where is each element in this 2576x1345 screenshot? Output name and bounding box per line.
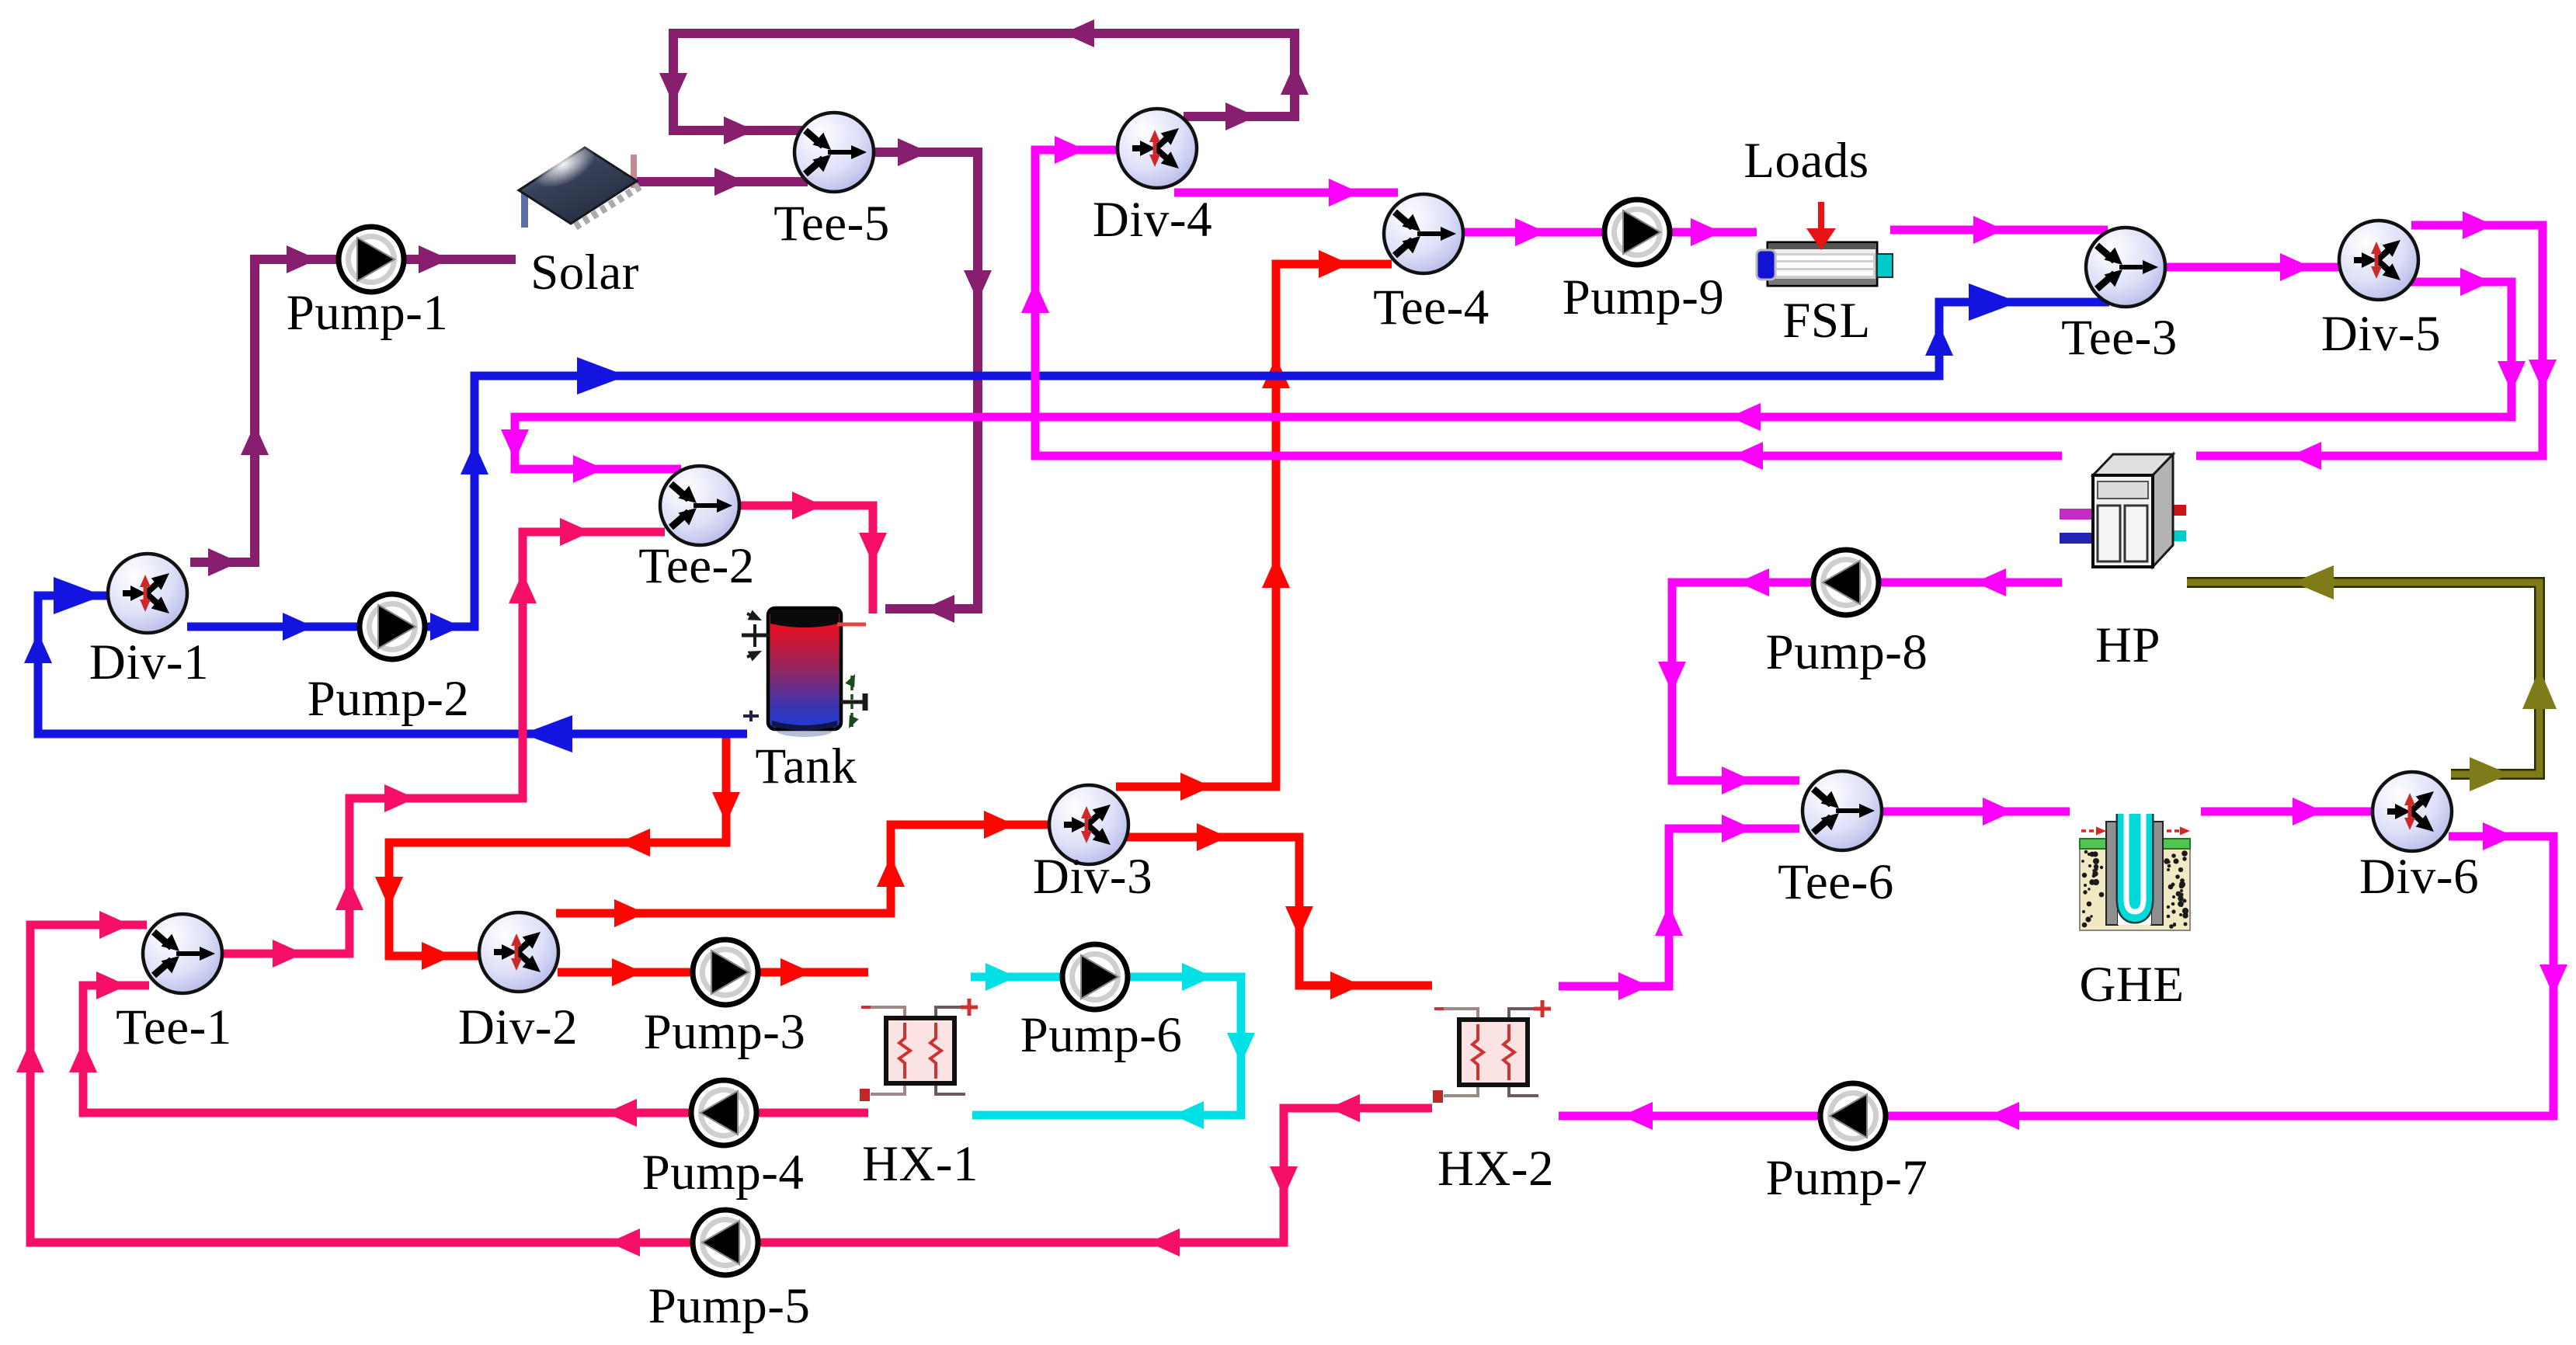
svg-text:Pump-1: Pump-1 — [287, 285, 449, 341]
icon Solar collector — [519, 132, 640, 228]
diverter Div-5 — [2339, 221, 2418, 300]
icon Loads arrow — [1806, 202, 1836, 250]
svg-text:Tee-4: Tee-4 — [1373, 280, 1490, 335]
pump Pump-8 — [1813, 550, 1879, 615]
pump Pump-9 — [1604, 200, 1670, 265]
svg-text:Tee-2: Tee-2 — [638, 538, 755, 594]
wire crimson Tee-1 to Tee-2 — [223, 518, 665, 968]
wire magenta Div-6 Pump-7 to HX-2 — [1559, 822, 2567, 1130]
wire red Div-2 to Pump-3 to HX-1 — [558, 958, 868, 986]
wire magenta Tee-3 to Div-5 — [2164, 253, 2341, 281]
icon HP heat pump — [2060, 454, 2186, 567]
pump Pump-6 — [1062, 944, 1128, 1010]
svg-text:HX-1: HX-1 — [862, 1136, 979, 1192]
icon Tank left sensor marks — [742, 610, 769, 722]
svg-text:Div-4: Div-4 — [1093, 192, 1212, 248]
wire magenta Tee-6 to GHE — [1882, 798, 2070, 825]
wire olive Div-6 to HP — [2187, 565, 2557, 791]
wire magenta Div-5 lower output bus to Tee-2 — [501, 268, 2526, 483]
wire crimson HX-1 Pump-4 to Tee-1 — [69, 971, 868, 1127]
svg-text:Pump-6: Pump-6 — [1020, 1007, 1183, 1063]
svg-text:Pump-9: Pump-9 — [1563, 269, 1725, 325]
svg-text:Pump-8: Pump-8 — [1766, 624, 1928, 680]
pump Pump-2 — [360, 594, 425, 659]
icon GHE borehole — [2080, 812, 2190, 930]
svg-text:Tee-5: Tee-5 — [773, 196, 890, 252]
svg-text:Div-1: Div-1 — [89, 634, 209, 690]
wire purple Solar to Tee-5 — [621, 168, 808, 196]
tee Tee-1 — [143, 914, 222, 993]
tee Tee-4 — [1384, 194, 1463, 273]
wire magenta bus to Div-4 riser — [1021, 136, 2062, 470]
wire blue Tank to Div-1 — [24, 577, 747, 752]
wire crimson HX-2 Pump-5 to Tee-1 — [16, 911, 1432, 1256]
svg-text:Tee-6: Tee-6 — [1778, 854, 1894, 910]
svg-text:Pump-3: Pump-3 — [644, 1004, 806, 1060]
wire red Div-3 to Tee-4 — [1116, 250, 1392, 801]
wire magenta Div-5 top output bus to Div-4 — [2196, 211, 2557, 470]
pump Pump-3 — [693, 940, 758, 1005]
pump Pump-1 — [339, 227, 404, 292]
icon Tank — [768, 608, 841, 737]
svg-text:Tank: Tank — [755, 739, 857, 794]
icon HX-1 heat exchanger — [860, 999, 978, 1101]
icon HX-2 heat exchanger — [1433, 1000, 1551, 1103]
diverter Div-2 — [479, 912, 558, 992]
svg-text:HP: HP — [2095, 617, 2161, 673]
wire blue Div-1 Pump-2 to Tee-3 — [187, 283, 2109, 641]
wire magenta HP Pump-8 to Tee-6 — [1658, 568, 2062, 794]
pump Pump-7 — [1820, 1083, 1886, 1149]
svg-text:Pump-4: Pump-4 — [642, 1145, 805, 1201]
diverter Div-6 — [2373, 772, 2452, 851]
diverter Div-3 — [1049, 785, 1128, 864]
wire purple Tee-5 to Tank inlet — [871, 138, 992, 623]
wire red Tank to Div-2 — [375, 738, 740, 970]
wire red Div-2 to Div-3 — [556, 811, 1052, 927]
svg-text:Tee-1: Tee-1 — [116, 999, 232, 1055]
diverter Div-1 — [108, 554, 187, 633]
icon Tank right sensor marks — [840, 674, 865, 728]
icon Tank port line — [837, 623, 866, 627]
svg-text:Loads: Loads — [1743, 133, 1869, 189]
svg-text:GHE: GHE — [2079, 957, 2184, 1013]
pump Pump-5 — [693, 1210, 758, 1275]
wire cyan HX-1 Pump-6 loop — [971, 963, 1255, 1129]
icon FSL finned tube — [1757, 242, 1893, 286]
tee Tee-6 — [1803, 771, 1882, 850]
tee Tee-3 — [2086, 228, 2165, 307]
svg-text:Div-2: Div-2 — [458, 999, 578, 1055]
wire magenta FSL to Tee-3 — [1890, 216, 2108, 244]
svg-text:HX-2: HX-2 — [1437, 1141, 1554, 1197]
wire magenta GHE to Div-6 — [2201, 798, 2373, 825]
wire red Div-3 to HX-2 — [1125, 823, 1432, 999]
diverter Div-4 — [1118, 109, 1197, 188]
svg-text:Tee-3: Tee-3 — [2061, 310, 2178, 366]
svg-text:FSL: FSL — [1782, 293, 1871, 349]
tee Tee-2 — [660, 466, 739, 545]
svg-text:Div-6: Div-6 — [2359, 849, 2479, 905]
svg-text:Div-5: Div-5 — [2321, 306, 2441, 362]
svg-text:Div-3: Div-3 — [1033, 849, 1152, 905]
wire magenta Div-4 to Tee-4 — [1174, 179, 1398, 207]
tee Tee-5 — [794, 113, 874, 192]
pump Pump-4 — [691, 1080, 756, 1145]
svg-text:Pump-7: Pump-7 — [1766, 1150, 1928, 1206]
wire purple Div-4 top loop to Tee-5 — [659, 19, 1309, 144]
svg-text:Pump-2: Pump-2 — [308, 671, 470, 727]
svg-text:Pump-5: Pump-5 — [648, 1278, 811, 1334]
wire magenta Tee-4 Pump-9 to FSL — [1463, 218, 1757, 246]
wire magenta HX-2 to Tee-6 — [1559, 815, 1799, 1000]
svg-text:Solar: Solar — [530, 245, 639, 301]
wire purple Div-1 to Pump-1 riser — [190, 245, 516, 576]
wire crimson Tee-2 to Tank inlet — [739, 492, 887, 613]
